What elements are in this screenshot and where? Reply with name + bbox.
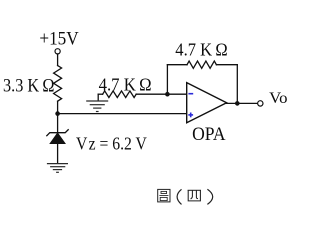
svg-text:+15V: +15V	[39, 30, 79, 50]
svg-text:3.3 K Ω: 3.3 K Ω	[3, 76, 55, 97]
svg-text:4.7 K Ω: 4.7 K Ω	[99, 74, 152, 94]
svg-text:Vo: Vo	[269, 90, 287, 107]
svg-text:V z = 6.2 V: V z = 6.2 V	[76, 134, 147, 154]
svg-text:4.7 K Ω: 4.7 K Ω	[175, 40, 227, 60]
svg-text:OPA: OPA	[192, 125, 226, 145]
